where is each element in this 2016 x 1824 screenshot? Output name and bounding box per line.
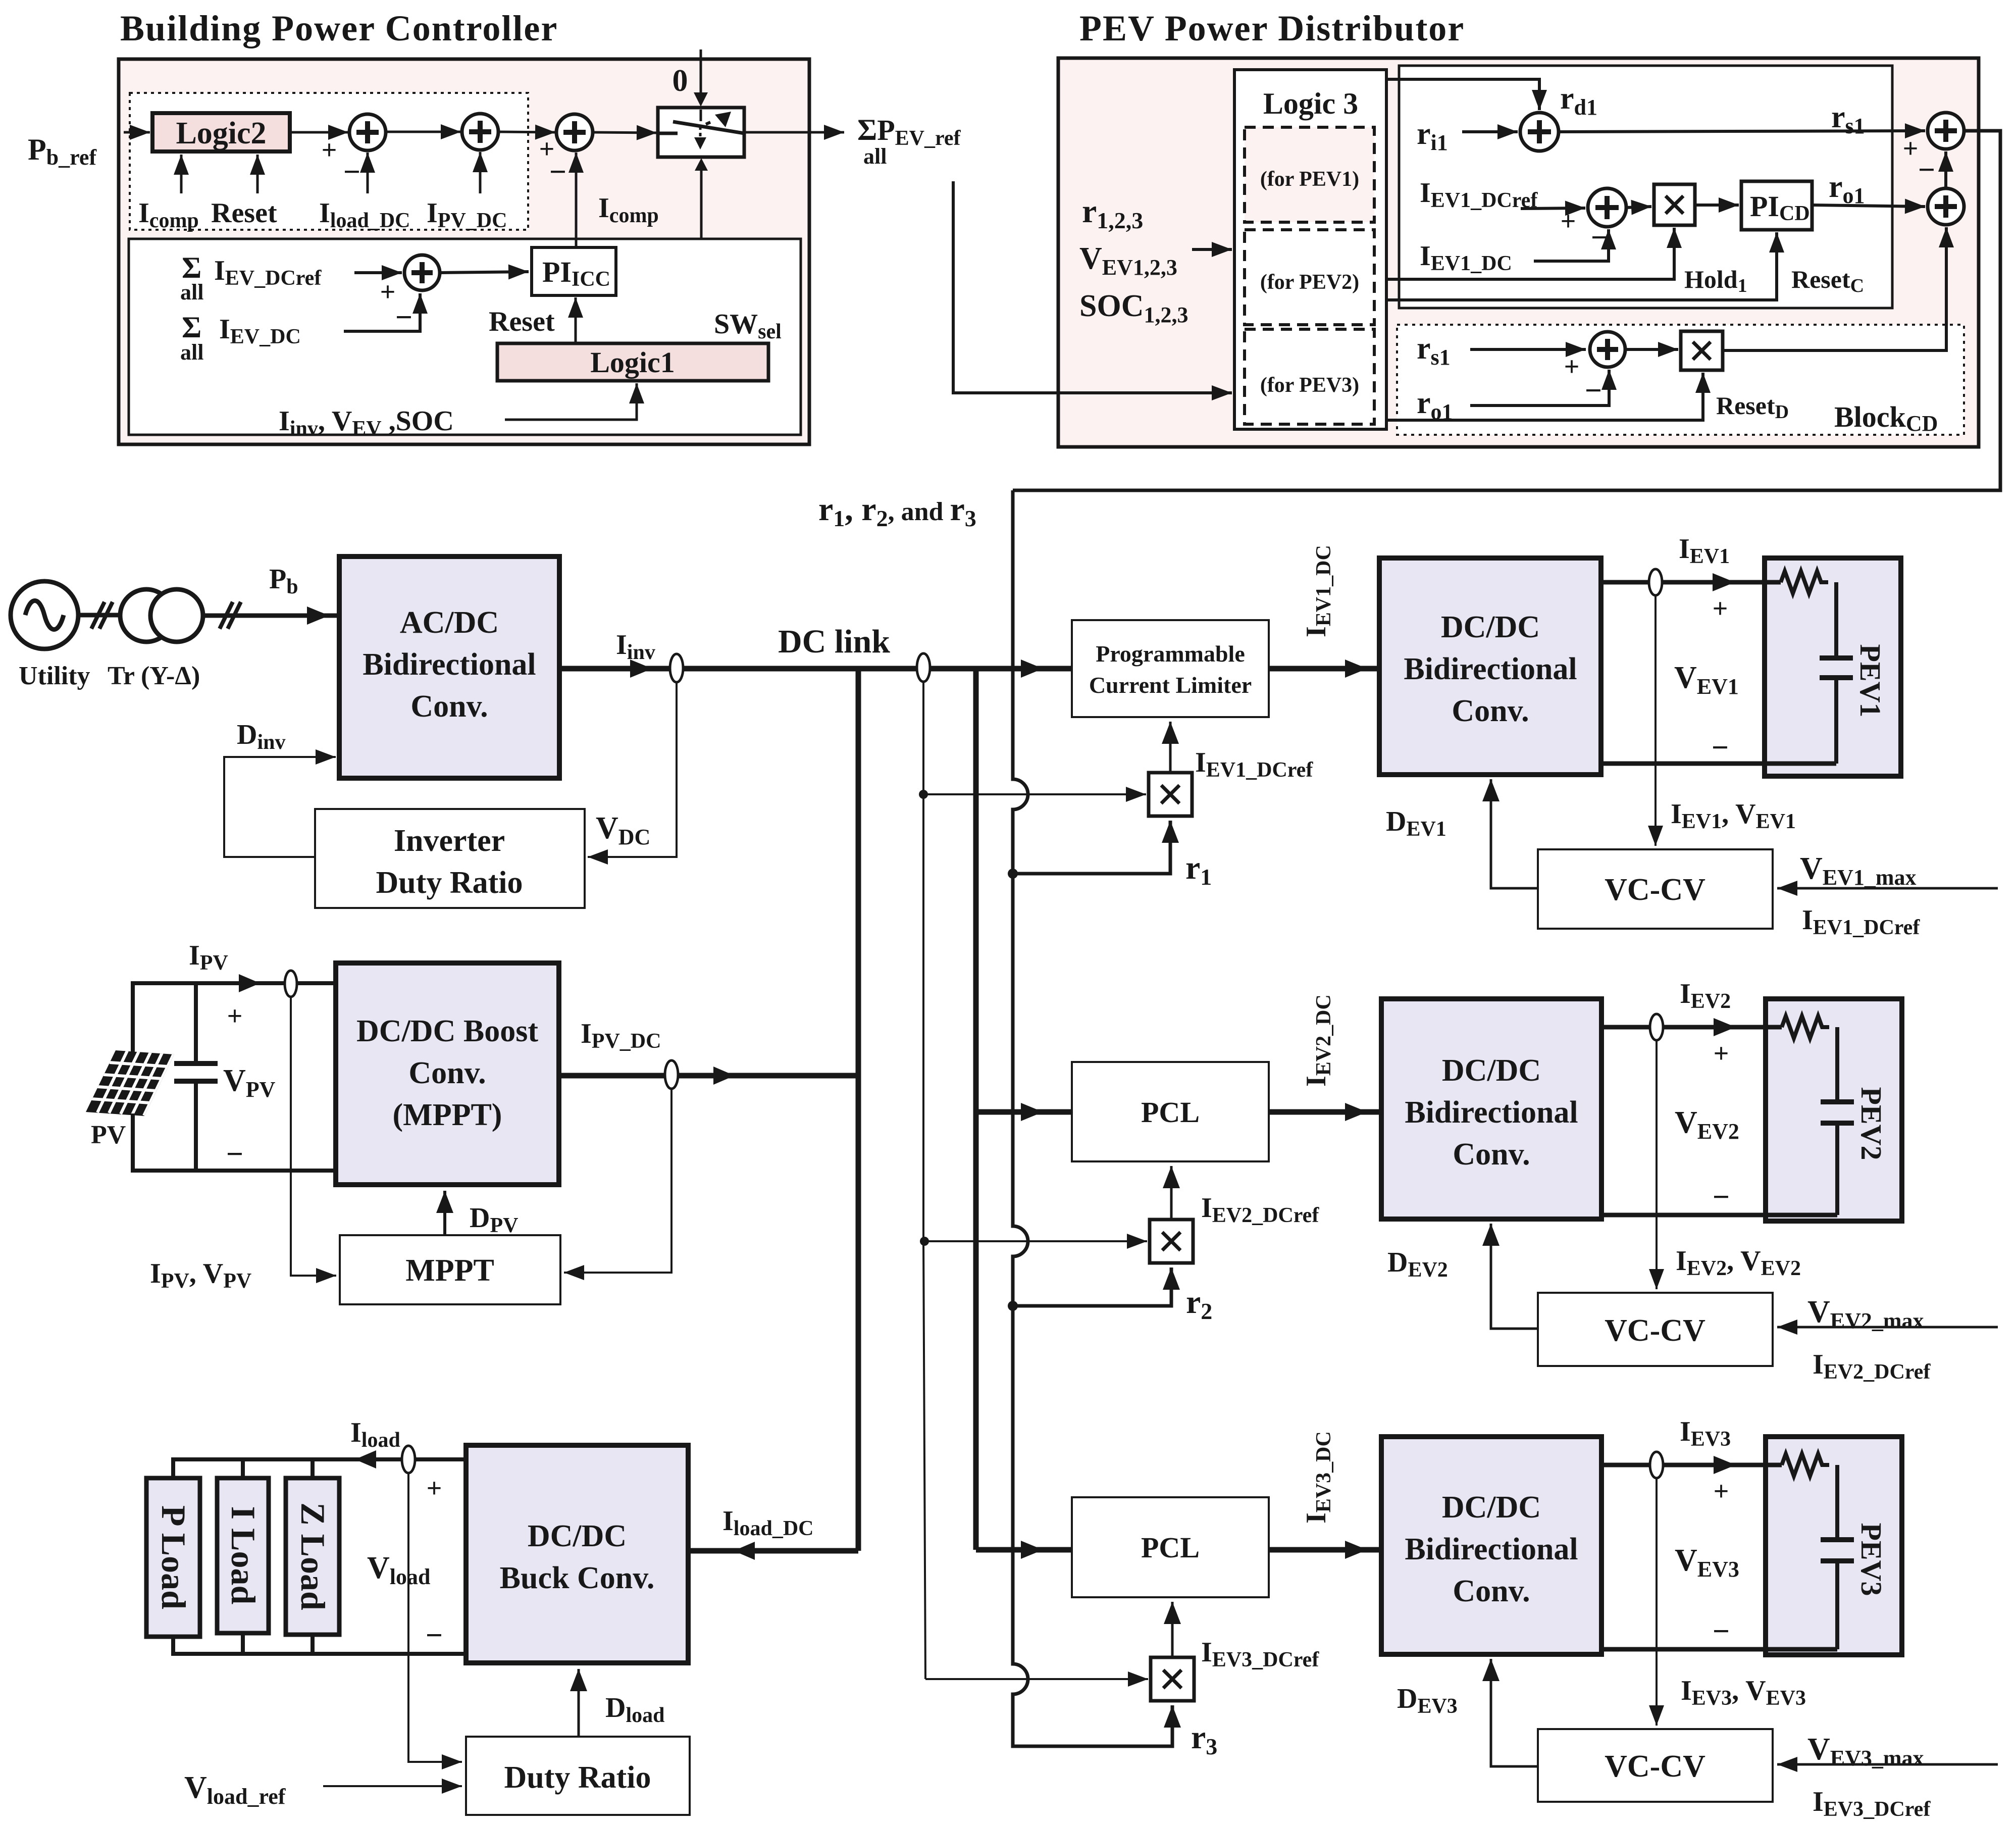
svg-text:(MPPT): (MPPT) [393, 1098, 502, 1132]
node: Iinv arrowhead on bus [630, 660, 652, 678]
capacitor: PEV1 battery [1834, 582, 1838, 658]
svg-text:Reset: Reset [489, 306, 555, 337]
svg-text:P Load: P Load [154, 1505, 193, 1609]
svg-text:+: + [427, 1473, 442, 1503]
svg-text:−: − [1712, 731, 1729, 764]
junction: r1 tap [1008, 869, 1018, 879]
wire: DC link branch into PCL2 [976, 1109, 1072, 1115]
block: DC/DC Bidirectional Conv 2 [1381, 999, 1601, 1219]
wire: switch blade [673, 122, 744, 133]
block: PEV3 box [1766, 1437, 1902, 1655]
wire: IPV_DC output to DC link branch [559, 1073, 858, 1079]
multiplier M4 [1681, 331, 1723, 370]
sensor: Vload ellipse [402, 1446, 415, 1473]
wire: B2 to multiplier M1 [1626, 207, 1651, 208]
wire: IEV3 output line [1601, 1463, 1782, 1467]
wire: B4 up into B3 [1944, 151, 1947, 188]
wire: S1 to S2 [386, 131, 461, 133]
junction: sense tap ch2 [920, 1237, 929, 1246]
svg-text:−: − [343, 155, 360, 188]
node: IEV1 arrowhead [1713, 573, 1735, 591]
svg-text:Logic 3: Logic 3 [1263, 87, 1358, 120]
block: VC-CV 2 [1538, 1293, 1773, 1366]
wire: IEV3_DCref from M_EV3 to PCL3 [1171, 1602, 1174, 1657]
capacitor: PEV3 battery [1835, 1465, 1839, 1540]
svg-text:(for PEV1): (for PEV1) [1260, 168, 1359, 191]
svg-text:−: − [426, 1618, 443, 1652]
svg-text:Conv.: Conv. [1453, 1574, 1530, 1608]
block: Logic2 [152, 113, 290, 151]
block: DC/DC Bidirectional Conv 3 [1381, 1437, 1601, 1654]
node: IEV3 arrowhead [1714, 1456, 1736, 1474]
block: for PEV2 dashed box [1245, 230, 1374, 325]
capacitor: PV bus capacitor [194, 983, 198, 1063]
wire: Reset arrow into Logic2 [256, 155, 259, 193]
wire: VEV3_max IEV3_DCref into VC-CV3 [1777, 1763, 1998, 1766]
multiplier M1 [1654, 184, 1695, 225]
block: PPD outer box [1058, 58, 1979, 447]
junction: r2 tap [1008, 1301, 1018, 1311]
wire: IEV_DC into S4 bottom [344, 293, 420, 331]
resistor: PEV2 internal [1782, 1016, 1829, 1038]
wire: VEV2_max IEV2_DCref into VC-CV2 [1777, 1326, 1998, 1329]
svg-text:DC/DC: DC/DC [1442, 1490, 1541, 1525]
wire: switch dashed arrow down [699, 126, 702, 130]
wire: IEV2_DCref from M_EV2 to PCL2 [1170, 1166, 1173, 1220]
resistor: PEV1 internal [1781, 571, 1828, 593]
svg-text:DC link: DC link [778, 623, 890, 660]
svg-text:PEV2: PEV2 [1855, 1087, 1888, 1160]
wire: S4 to PI_ICC [440, 272, 529, 273]
wire: IEV2 output line [1601, 1025, 1782, 1030]
block: PI_CD [1741, 181, 1812, 230]
summer B5 [1590, 332, 1625, 367]
wire: transformer to AC/DC conv [203, 614, 338, 618]
summer B3 far-right top [1928, 113, 1964, 149]
wire: M1 to PI_CD [1695, 204, 1739, 207]
wire: switch output to sum PEV_ref [744, 131, 844, 134]
wire: loads top rail [173, 1459, 466, 1478]
transformer Tr (Y-D) [120, 589, 173, 642]
svg-text:Conv.: Conv. [410, 689, 488, 724]
wire: DC link bus [559, 666, 1072, 672]
wire: Logic2 to S1 [292, 131, 348, 134]
wire: IEV3 VEV3 sense into VC-CV3 [1656, 1478, 1658, 1726]
block: PCL3 [1072, 1497, 1269, 1597]
svg-text:0: 0 [673, 64, 688, 98]
svg-text:Programmable: Programmable [1096, 641, 1245, 667]
wire: PEV1 return line [1601, 762, 1836, 766]
svg-text:Current Limiter: Current Limiter [1089, 672, 1252, 698]
node: three-phase hash marks left [91, 602, 105, 629]
svg-text:all: all [180, 280, 203, 305]
wire: IEV_DCref into S4 [354, 271, 402, 274]
svg-text:Bidirectional: Bidirectional [1404, 652, 1577, 686]
source: Utility AC source [11, 581, 78, 649]
wire: Reset from Logic1 up to PI_ICC [575, 297, 577, 343]
svg-text:MPPT: MPPT [405, 1253, 494, 1288]
node: Iload arrowhead left [355, 1450, 376, 1468]
wire: PCL1 to conv1 [1269, 666, 1379, 672]
block: BPC dashed sub-box [130, 93, 528, 230]
wire: r1 branch into M_EV1 [1013, 821, 1170, 874]
wire: zero input into switch [700, 49, 702, 92]
sensor: IPV ellipse [285, 971, 297, 997]
block: switch SW box [658, 108, 744, 157]
wire: IEV1 output line [1601, 580, 1781, 585]
svg-text:Z Load: Z Load [294, 1502, 332, 1610]
block: BlockCD dotted box [1397, 325, 1964, 435]
wire: DPV from MPPT into boost [443, 1191, 446, 1235]
block: VC-CV 1 [1538, 849, 1773, 929]
svg-text:Reset: Reset [211, 197, 277, 229]
block: PCL2 [1072, 1062, 1269, 1161]
wire: utility to transformer [78, 613, 121, 618]
svg-text:−: − [1713, 1180, 1730, 1213]
wire: PCL2 to conv2 [1269, 1109, 1381, 1115]
block: Duty Ratio [466, 1737, 690, 1815]
wire: DC link branch into PCL3 [976, 1547, 1072, 1553]
sensor: IEV3 ellipse [1650, 1452, 1663, 1478]
svg-text:−: − [1918, 153, 1935, 186]
wire: S3 to switch [593, 132, 657, 133]
wire: sense into M_EV1 [923, 793, 1146, 795]
svg-text:Building Power Controller: Building Power Controller [120, 8, 558, 48]
wire: Iload_DC from DC link to buck [688, 1548, 858, 1554]
svg-text:(for PEV2): (for PEV2) [1260, 271, 1359, 294]
svg-text:−: − [1713, 1614, 1730, 1648]
wire: loads bottom rail [173, 1637, 466, 1654]
svg-text:Logic2: Logic2 [176, 116, 266, 150]
wire: IEV1 VEV1 sense into VC-CV1 [1655, 595, 1657, 846]
block: Programmable Current Limiter [1072, 620, 1269, 717]
node: three-phase hash marks right [220, 602, 233, 629]
multiplier M_EV1 [1149, 773, 1192, 816]
svg-text:all: all [863, 144, 887, 169]
svg-text:Duty Ratio: Duty Ratio [376, 866, 523, 900]
svg-text:Conv.: Conv. [1452, 694, 1529, 728]
node: Pb arrowhead [307, 606, 329, 625]
svg-text:+: + [380, 277, 396, 307]
summer S2 [462, 114, 498, 150]
svg-text:all: all [180, 340, 203, 365]
wire: IEV1_DCref into sum B2 [1521, 208, 1585, 209]
svg-text:+: + [1903, 133, 1919, 164]
svg-text:−: − [1585, 374, 1602, 407]
svg-text:DC/DC Boost: DC/DC Boost [356, 1014, 538, 1048]
block: for PEV1 dashed box [1245, 127, 1374, 222]
block: for PEV3 dashed box [1245, 329, 1374, 424]
block: DC/DC Buck Conv [466, 1445, 688, 1663]
node: bus arrowhead into PCL1 [1021, 660, 1043, 678]
wire: r distribution line with hops [1013, 490, 1172, 1746]
svg-text:Inverter: Inverter [394, 824, 505, 858]
wire: r2 branch into M_EV2 [1013, 1268, 1171, 1306]
svg-text:+: + [227, 1001, 243, 1031]
svg-text:DC/DC: DC/DC [528, 1519, 627, 1553]
wire: IPV_DC sense into MPPT right [564, 1089, 671, 1273]
wire: Hold1 from Logic3 to M1 bottom [1386, 228, 1674, 279]
block: MPPT [340, 1235, 560, 1304]
summer S4 [404, 255, 440, 290]
summer S1 [349, 114, 386, 150]
wire: PCL3 to conv3 [1269, 1547, 1381, 1553]
load: Z Load [286, 1478, 339, 1635]
node: IPV arrowhead [239, 974, 260, 992]
node: IEV1_DC arrowhead [1345, 660, 1367, 678]
wire: ro1 line to far sum B3 [1812, 205, 1925, 207]
wire: IEV1_DCref from M_EV1 to PCL1 [1169, 722, 1172, 773]
node: IPV_DC arrowhead [713, 1067, 735, 1085]
load: P Load [146, 1478, 200, 1637]
component: PV panel [86, 1050, 174, 1116]
svg-text:Conv.: Conv. [1453, 1137, 1530, 1172]
svg-text:Buck Conv.: Buck Conv. [500, 1561, 655, 1595]
svg-text:Tr (Y-Δ): Tr (Y-Δ) [108, 662, 200, 690]
wire: B5 to multiplier M4 [1625, 348, 1678, 351]
wire: Vload_ref into duty ratio [323, 1785, 462, 1787]
wire: DC link sense drop line [923, 682, 925, 1679]
load: I Load [217, 1478, 269, 1633]
svg-text:PCL: PCL [1141, 1096, 1200, 1129]
sensor: IEV1 ellipse [1649, 569, 1662, 595]
wire: SWsel into switch bottom [700, 171, 703, 343]
wire: DEV2 from VC-CV2 to conv2 [1491, 1224, 1538, 1329]
block: DC/DC Boost Conv MPPT [336, 963, 559, 1185]
block: AC/DC Bidirectional Conv [339, 556, 559, 778]
sensor: Iinv ellipse [670, 654, 683, 682]
block: PEV1 box [1765, 558, 1901, 776]
summer B4 far-right bottom [1928, 188, 1964, 225]
wire: B3 output route to r-line [1013, 131, 2000, 490]
wire: IPV VPV sense into MPPT [291, 997, 336, 1276]
svg-text:PEV Power Distributor: PEV Power Distributor [1079, 8, 1465, 48]
wire: Iinv VEV SOC into Logic1 [505, 383, 637, 420]
wire: Iload_DC arrow into S1 [367, 153, 369, 193]
svg-text:+: + [1714, 1038, 1729, 1069]
wire: rs1 line to far sum [1559, 131, 1925, 132]
wire: DEV3 from VC-CV3 to conv3 [1491, 1659, 1538, 1766]
block: BPC inner lower box [129, 239, 801, 435]
resistor: PEV3 internal [1782, 1454, 1829, 1476]
svg-text:VC-CV: VC-CV [1605, 1749, 1705, 1784]
sensor: IPV_DC ellipse [665, 1060, 678, 1089]
wire: ResetD from Logic3 to M4 bottom [1386, 373, 1703, 420]
svg-text:Duty Ratio: Duty Ratio [504, 1760, 651, 1795]
svg-text:Bidirectional: Bidirectional [1405, 1532, 1578, 1566]
block: PPD top-right white box [1399, 66, 1892, 308]
wire: inputs into Logic3 [1192, 248, 1232, 251]
multiplier M_EV3 [1151, 1657, 1194, 1701]
block: PI_ICC [532, 247, 616, 295]
wire: M4 output up into B4 [1723, 227, 1946, 350]
wire: IEV2 VEV2 sense into VC-CV2 [1656, 1040, 1658, 1289]
wire: sum PEV_ref route into Logic3 [953, 181, 1232, 393]
wire: VDC sense line [588, 682, 677, 857]
svg-text:+: + [1714, 1476, 1729, 1506]
svg-text:DC/DC: DC/DC [1441, 610, 1540, 644]
wire: DC link right branch down [973, 669, 979, 1550]
wire: DEV1 from VC-CV1 to conv1 [1491, 779, 1538, 888]
svg-text:−: − [549, 155, 566, 188]
svg-text:PEV3: PEV3 [1855, 1523, 1888, 1596]
svg-text:−: − [395, 300, 412, 334]
multiplier M_EV2 [1150, 1220, 1193, 1263]
block: PEV2 box [1766, 999, 1902, 1221]
svg-text:−: − [226, 1137, 243, 1171]
svg-text:PCL: PCL [1141, 1531, 1200, 1564]
wire: Dload from duty ratio into buck [578, 1669, 580, 1737]
svg-text:−: − [1591, 221, 1608, 254]
block: Logic 3 box [1234, 70, 1386, 429]
wire: sense into M_EV3 [925, 1678, 1148, 1680]
wire: switch dashed arrow up-right [706, 122, 710, 124]
wire: rd1 from Logic3 into sum B1 [1386, 79, 1539, 110]
block: DC/DC Bidirectional Conv 1 [1379, 558, 1601, 775]
wire: PEV3 return line [1601, 1647, 1837, 1652]
block: BPC outer box [119, 59, 809, 444]
wire: ResetC from Logic3 to PI_CD bottom [1386, 232, 1777, 300]
svg-text:VC-CV: VC-CV [1605, 873, 1705, 907]
sensor: IEV2 ellipse [1650, 1014, 1663, 1040]
capacitor: PEV2 battery [1835, 1027, 1839, 1102]
wire: switch left stub [658, 132, 678, 135]
svg-text:Logic1: Logic1 [590, 346, 675, 379]
wire: S2 to S3 [498, 132, 555, 132]
wire: rs1 into sum B5 [1470, 348, 1586, 351]
summer B2 [1588, 188, 1626, 227]
wire: Pb_ref to Logic2 [124, 131, 150, 134]
svg-text:VC-CV: VC-CV [1605, 1313, 1705, 1348]
wire: ro1 into B5 bottom [1470, 370, 1609, 406]
wire: Dinv from duty ratio into AC/DC [224, 757, 336, 857]
wire: IPV_DC arrow into S2 [479, 152, 482, 193]
svg-text:+: + [322, 135, 337, 165]
svg-text:Utility: Utility [19, 662, 90, 690]
svg-text:Σ: Σ [182, 311, 201, 344]
svg-text:Bidirectional: Bidirectional [1405, 1095, 1578, 1130]
svg-text:+: + [1564, 351, 1580, 382]
summer B1 [1520, 113, 1559, 151]
wire: VEV1_max IEV1_DCref into VC-CV1 [1777, 887, 1998, 890]
wire: PV bottom rail [133, 1113, 336, 1171]
svg-text:I Load: I Load [224, 1506, 263, 1605]
svg-text:PEV1: PEV1 [1854, 644, 1887, 718]
wire: DC link left branch down [856, 669, 861, 1551]
wire: ri1 into sum B1 [1462, 130, 1518, 133]
wire: PV top rail [133, 983, 336, 1052]
svg-text:PV: PV [91, 1121, 126, 1149]
wire: switch input line into box [700, 110, 702, 121]
summer S3 [556, 114, 593, 150]
block: Inverter Duty Ratio [315, 809, 585, 908]
node: IEV2_DC arrowhead [1345, 1103, 1367, 1121]
svg-text:DC/DC: DC/DC [1442, 1053, 1541, 1088]
svg-text:Conv.: Conv. [408, 1056, 486, 1090]
junction: sense tap ch1 [919, 790, 928, 799]
svg-text:Bidirectional: Bidirectional [363, 647, 536, 682]
node: IEV2 arrowhead [1714, 1018, 1736, 1036]
svg-text:+: + [1713, 593, 1728, 624]
node: IEV3_DC arrowhead [1345, 1541, 1367, 1559]
node: Iload_DC arrowhead left [734, 1542, 755, 1560]
svg-text:AC/DC: AC/DC [400, 605, 499, 640]
wire: Vload sense into duty ratio [408, 1473, 462, 1762]
block: Logic1 [497, 343, 768, 381]
svg-text:(for PEV3): (for PEV3) [1260, 374, 1359, 397]
sensor: DC link ellipse [917, 653, 930, 682]
wire: PEV2 return line [1601, 1213, 1837, 1218]
block: VC-CV 3 [1538, 1729, 1773, 1802]
wire: Icomp from PI_ICC up to S3 [575, 153, 578, 247]
wire: IEV1_DC into sum B2 bottom [1534, 229, 1609, 261]
wire: Icomp arrow into Logic2 [180, 155, 183, 193]
wire: sense into M_EV2 [924, 1240, 1147, 1242]
svg-text:+: + [1561, 206, 1576, 236]
